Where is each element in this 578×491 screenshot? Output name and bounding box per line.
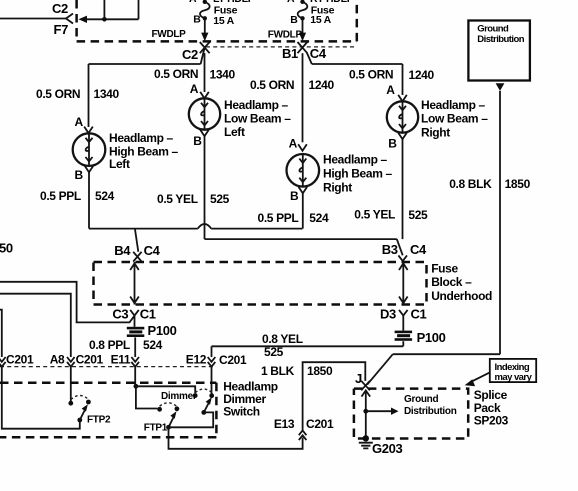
svg-text:Ground: Ground bbox=[477, 23, 509, 34]
svg-text:C201: C201 bbox=[219, 353, 247, 367]
svg-text:P100: P100 bbox=[148, 323, 177, 338]
svg-text:1240: 1240 bbox=[409, 68, 435, 82]
svg-text:High Beam –: High Beam – bbox=[323, 166, 393, 180]
svg-text:Low Beam –: Low Beam – bbox=[421, 112, 488, 126]
svg-text:15 A: 15 A bbox=[310, 14, 331, 26]
svg-text:E12: E12 bbox=[186, 353, 207, 367]
svg-text:C2: C2 bbox=[182, 47, 198, 62]
svg-text:1 BLK: 1 BLK bbox=[261, 364, 295, 378]
svg-text:Headlamp –: Headlamp – bbox=[109, 131, 174, 145]
svg-text:C201: C201 bbox=[306, 417, 334, 431]
svg-text:15 A: 15 A bbox=[213, 15, 234, 27]
svg-text:0.5 YEL: 0.5 YEL bbox=[157, 192, 198, 206]
svg-text:C4: C4 bbox=[410, 242, 427, 257]
svg-text:FTP1: FTP1 bbox=[144, 422, 168, 433]
svg-text:Low Beam –: Low Beam – bbox=[224, 112, 291, 126]
svg-text:1240: 1240 bbox=[309, 78, 335, 92]
svg-text:524: 524 bbox=[309, 211, 329, 225]
svg-text:C201: C201 bbox=[6, 352, 34, 366]
svg-text:0.5 ORN: 0.5 ORN bbox=[349, 67, 393, 81]
svg-text:B3: B3 bbox=[382, 242, 398, 257]
svg-text:B4: B4 bbox=[114, 243, 131, 258]
svg-text:A: A bbox=[287, 0, 295, 5]
svg-text:SP203: SP203 bbox=[474, 414, 509, 428]
svg-text:Underhood: Underhood bbox=[431, 289, 492, 303]
svg-text:525: 525 bbox=[408, 208, 428, 222]
svg-text:C1: C1 bbox=[411, 306, 427, 321]
svg-text:C4: C4 bbox=[144, 243, 161, 258]
svg-text:G203: G203 bbox=[372, 441, 403, 456]
svg-text:E13: E13 bbox=[274, 417, 295, 431]
svg-text:Distribution: Distribution bbox=[477, 34, 524, 45]
svg-text:0.5 PPL: 0.5 PPL bbox=[258, 211, 299, 225]
svg-text:525: 525 bbox=[210, 192, 230, 206]
svg-text:B: B bbox=[193, 134, 202, 148]
svg-text:B: B bbox=[193, 14, 201, 26]
svg-text:524: 524 bbox=[95, 189, 115, 203]
svg-text:0.8 PPL: 0.8 PPL bbox=[89, 338, 130, 352]
svg-text:A: A bbox=[289, 137, 298, 151]
svg-text:Right: Right bbox=[323, 181, 352, 195]
svg-text:Left: Left bbox=[224, 125, 245, 139]
svg-text:D3: D3 bbox=[380, 306, 396, 321]
svg-text:B: B bbox=[75, 168, 84, 182]
svg-text:1850: 1850 bbox=[505, 177, 531, 191]
svg-text:0.8 YEL: 0.8 YEL bbox=[262, 332, 303, 346]
svg-text:B: B bbox=[388, 137, 397, 151]
svg-text:B1: B1 bbox=[282, 46, 298, 61]
svg-text:0.8 BLK: 0.8 BLK bbox=[449, 177, 492, 191]
svg-text:1850: 1850 bbox=[307, 364, 333, 378]
svg-text:Left: Left bbox=[109, 157, 130, 171]
svg-text:A: A bbox=[386, 83, 395, 97]
svg-text:Right: Right bbox=[421, 126, 450, 140]
svg-text:A8: A8 bbox=[50, 352, 65, 366]
svg-text:Headlamp –: Headlamp – bbox=[224, 98, 289, 112]
svg-text:F7: F7 bbox=[54, 22, 69, 37]
svg-text:C3: C3 bbox=[112, 306, 128, 321]
svg-text:may vary: may vary bbox=[495, 372, 533, 383]
svg-text:Fuse: Fuse bbox=[431, 261, 458, 275]
svg-text:A: A bbox=[190, 82, 199, 96]
svg-text:525: 525 bbox=[264, 345, 284, 359]
svg-text:C2: C2 bbox=[52, 1, 68, 16]
svg-text:FTP2: FTP2 bbox=[87, 414, 111, 425]
svg-text:Headlamp –: Headlamp – bbox=[421, 98, 486, 112]
svg-text:A: A bbox=[189, 0, 197, 5]
svg-text:P100: P100 bbox=[417, 330, 446, 345]
svg-text:Switch: Switch bbox=[223, 404, 260, 418]
svg-text:Ground: Ground bbox=[404, 394, 438, 405]
svg-text:J: J bbox=[355, 371, 362, 386]
svg-text:Dimmer: Dimmer bbox=[161, 391, 197, 402]
svg-text:C1: C1 bbox=[140, 306, 156, 321]
svg-text:C201: C201 bbox=[76, 352, 104, 366]
svg-text:Headlamp –: Headlamp – bbox=[323, 152, 388, 166]
svg-text:B: B bbox=[290, 189, 299, 203]
svg-text:B: B bbox=[290, 14, 298, 26]
svg-text:E11: E11 bbox=[111, 352, 131, 366]
svg-text:50: 50 bbox=[0, 241, 13, 256]
svg-text:Distribution: Distribution bbox=[404, 406, 457, 417]
svg-text:1340: 1340 bbox=[94, 87, 120, 101]
svg-text:FWDLP: FWDLP bbox=[268, 29, 303, 40]
svg-text:0.5 ORN: 0.5 ORN bbox=[154, 67, 198, 81]
svg-text:1340: 1340 bbox=[210, 67, 236, 81]
svg-text:Block –: Block – bbox=[431, 275, 472, 289]
svg-text:524: 524 bbox=[143, 338, 163, 352]
svg-text:C4: C4 bbox=[310, 46, 327, 61]
svg-text:0.5 YEL: 0.5 YEL bbox=[354, 208, 395, 222]
svg-text:A: A bbox=[75, 115, 84, 129]
svg-text:0.5 ORN: 0.5 ORN bbox=[250, 78, 294, 92]
svg-text:0.5 PPL: 0.5 PPL bbox=[40, 189, 81, 203]
svg-text:FWDLP: FWDLP bbox=[152, 29, 187, 40]
svg-text:0.5 ORN: 0.5 ORN bbox=[36, 87, 80, 101]
